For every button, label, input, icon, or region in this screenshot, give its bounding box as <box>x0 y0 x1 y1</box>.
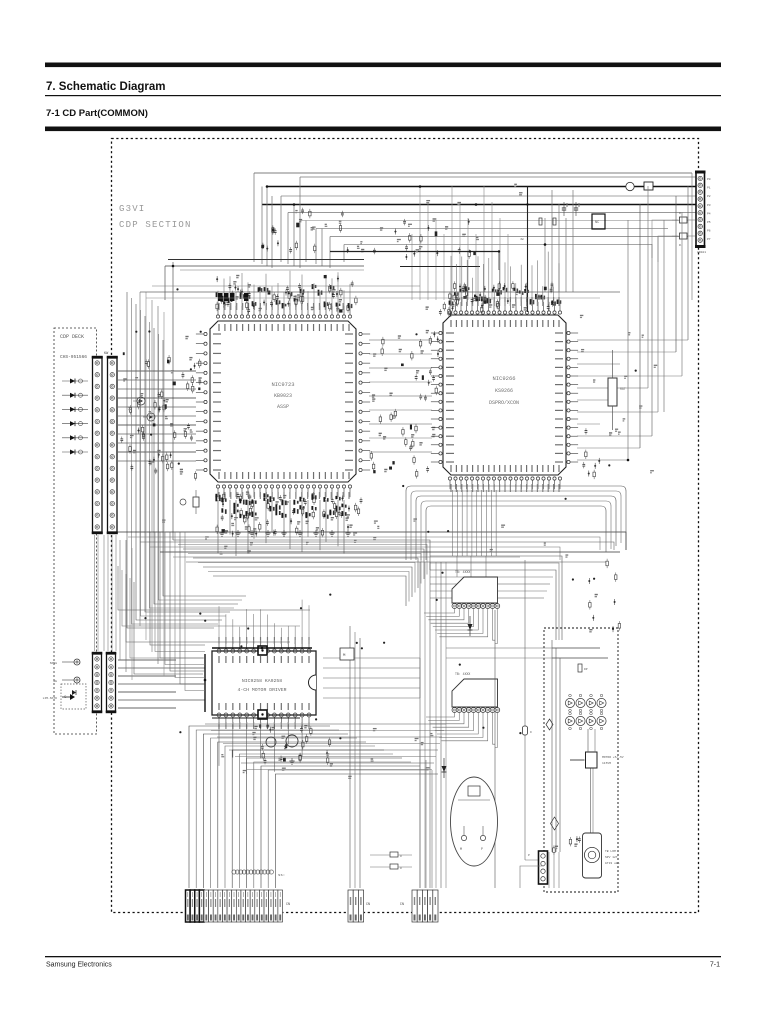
wire verticals right margin <box>628 173 692 460</box>
wire bus verticals mid-bottom <box>350 626 432 888</box>
wire horizontal band below U3 <box>205 724 446 770</box>
value labels on U1 bottom wires <box>215 493 346 519</box>
svg-text:TB LOM: TB LOM <box>605 850 616 853</box>
U1 left pins <box>196 332 207 471</box>
wire bus above U3 nested <box>118 532 310 691</box>
wire U2 bottom pin drops <box>453 490 497 577</box>
component on thick top line <box>644 182 653 190</box>
value labels on U2 top wires <box>449 287 562 306</box>
wire top bus mid vertical drops to U2 <box>412 186 573 300</box>
transistor Q1 left of U1 <box>133 397 145 405</box>
diode barrel on x525 wire <box>523 726 533 735</box>
connector CN4 strip B lower <box>106 652 117 713</box>
resistor R vertical right of U3 <box>608 350 626 430</box>
svg-text:P: P <box>481 847 483 851</box>
svg-text:SPRG: SPRG <box>50 662 57 665</box>
wires top of transistor array <box>552 640 608 852</box>
diode row in CDP DECK box <box>62 379 88 455</box>
diode D diamond upper <box>546 719 553 730</box>
junction dot specks <box>135 288 637 739</box>
svg-text:DP: DP <box>584 668 588 671</box>
U2 left pins <box>431 331 442 463</box>
label noise mid band <box>162 518 568 557</box>
wire feeds into inner dashed box top <box>446 648 552 658</box>
svg-text:NIC9266: NIC9266 <box>492 375 515 382</box>
circle junction on top bus <box>626 182 634 190</box>
label noise left bus <box>123 371 192 464</box>
svg-text:P0: P0 <box>707 178 711 181</box>
capacitor cluster top middle <box>339 211 476 260</box>
svg-text:RGT: RGT <box>620 387 626 391</box>
IC small box on top bus <box>592 214 605 229</box>
U3 bottom pins <box>217 713 311 724</box>
wire transistor grid to motor IC <box>588 729 595 752</box>
resistor pair block above U1 <box>218 293 249 301</box>
svg-text:TB: 4XXX: TB: 4XXX <box>455 672 470 676</box>
outer dashed border of CDP section <box>112 139 699 913</box>
svg-text:TB: 4XXX: TB: 4XXX <box>455 570 470 574</box>
wire band across middle <box>116 532 626 562</box>
svg-text:CDP DECK: CDP DECK <box>60 334 84 340</box>
svg-text:SPV 12T: SPV 12T <box>605 856 618 859</box>
svg-text:MOTOR +5/-5V: MOTOR +5/-5V <box>602 755 624 759</box>
connector CN9 bottom middle <box>348 890 370 922</box>
U3 top pins <box>217 642 311 653</box>
header top rule <box>45 63 721 68</box>
wire bus U1 right to U2 left <box>369 340 432 452</box>
U1 top pins <box>216 306 351 318</box>
svg-text:KS9266: KS9266 <box>495 388 513 394</box>
wire U1 top pin risers <box>218 271 350 306</box>
wire U3 top pin risers <box>219 600 309 640</box>
svg-text:P6: P6 <box>707 230 711 233</box>
svg-text:NIC9723: NIC9723 <box>271 381 294 388</box>
connector CN3 deck strip B <box>107 356 118 534</box>
wire U1 bottom pin droppers <box>218 500 344 556</box>
wire bus left connectors to U1 <box>118 371 196 461</box>
label noise right column <box>580 315 657 472</box>
svg-text:P2: P2 <box>707 195 711 198</box>
IC U2 NIC9266 KS9266 DSPRO/XCON <box>443 315 566 475</box>
component cluster below U1 pins <box>216 492 362 538</box>
wire fan below CN6 <box>426 713 497 748</box>
resistor cluster mid right <box>582 428 612 479</box>
wire right-edge feeders <box>652 220 672 262</box>
wire top bus left vertical drops <box>254 173 344 268</box>
capacitor cluster top-left of U2 <box>426 296 467 317</box>
U2 right pins <box>567 331 578 463</box>
diode D1 between CN5 CN6 <box>468 616 473 636</box>
svg-text:P3: P3 <box>707 204 711 207</box>
component cluster right of deck connectors <box>120 352 196 480</box>
svg-text:D: D <box>530 731 532 734</box>
svg-text:GT33 uGb: GT33 uGb <box>605 861 620 865</box>
electrolytic cap C below U3 <box>286 735 298 747</box>
svg-text:P1: P1 <box>707 187 711 190</box>
component cluster left of U2 <box>410 336 439 433</box>
footer rule <box>45 956 721 957</box>
resistor pair above CN9 <box>370 852 412 870</box>
dashed sub-box G in CDP DECK <box>61 684 86 709</box>
motor drive IC box <box>570 752 624 768</box>
svg-text:7. Schematic Diagram: 7. Schematic Diagram <box>46 81 166 93</box>
wire rectangle above U1 <box>165 260 364 541</box>
switch symbols lower left <box>43 659 80 700</box>
wire big nested bus below U1 <box>127 292 430 628</box>
svg-text:ss:: ss: <box>278 874 285 878</box>
svg-text:NC: NC <box>595 221 599 225</box>
resistor R near top bus right <box>539 218 542 225</box>
connector CN5 horizontal <box>452 570 500 609</box>
diode D2 below CN6 <box>442 758 447 778</box>
cap cluster right of U3 <box>588 559 620 632</box>
diode D diamond lower <box>551 817 559 830</box>
header bottom rule <box>45 127 721 132</box>
wire bus right of U2 going right <box>577 340 688 460</box>
component cluster above U1 pins <box>216 275 357 314</box>
wire bus below U3 to bottom connector <box>189 726 438 888</box>
svg-text:4-CH MOTOR DRIVER: 4-CH MOTOR DRIVER <box>238 687 287 693</box>
wire U3 bottom pin drops <box>219 724 302 774</box>
loading motor M2 <box>583 833 620 878</box>
resistor boxes feeding right connector <box>672 212 695 247</box>
svg-text:CN: CN <box>366 903 370 907</box>
svg-text:CHS-951566: CHS-951566 <box>60 354 87 360</box>
wire thick feed to U2 top <box>330 187 529 313</box>
svg-text:ASSP: ASSP <box>277 404 289 410</box>
svg-text:CDP SECTION: CDP SECTION <box>119 220 192 230</box>
svg-text:P7: P7 <box>707 238 711 241</box>
U1 right pins <box>359 332 370 471</box>
wire U2 top pin risers <box>451 252 559 302</box>
U3 black pin squares <box>258 646 267 655</box>
svg-text:LIM-SKTD: LIM-SKTD <box>43 697 58 700</box>
svg-text:M: M <box>460 847 462 851</box>
header thin rule <box>45 95 721 96</box>
value labels on U1 top wires <box>216 284 353 308</box>
svg-text:P5: P5 <box>707 221 711 224</box>
electrolytic cap C2 below U3 <box>266 737 276 747</box>
U2 bottom pins <box>448 477 561 489</box>
svg-text:4W: 4W <box>520 238 524 241</box>
wire fan below CN5 <box>424 609 497 644</box>
connector CN7 small left of loading section <box>528 851 548 884</box>
svg-text:DSPRO/XCON: DSPRO/XCON <box>489 400 519 406</box>
svg-text:CN101: CN101 <box>697 251 706 254</box>
wire bottom right connectors feeders <box>520 852 559 888</box>
spindle motor M1 ellipse <box>451 777 498 866</box>
tiny circle row above bottom connector <box>232 870 285 878</box>
svg-text:115VM: 115VM <box>602 762 611 765</box>
connector CN8 bottom large <box>186 890 291 922</box>
component cluster right of U1 <box>370 331 435 479</box>
wire bus wrapping to right mid <box>430 556 562 640</box>
U2 top pins <box>448 302 561 314</box>
svg-text:G3VI: G3VI <box>119 204 145 214</box>
crystal X1 left of U1 <box>180 490 199 514</box>
component cluster above U2 <box>449 281 554 314</box>
label noise top bus <box>295 184 522 251</box>
U3 pin name labels <box>219 637 309 729</box>
connector CN3 deck strip A <box>92 356 103 534</box>
svg-text:KB9023: KB9023 <box>274 393 292 399</box>
wire frame top-left of U1 <box>140 286 620 298</box>
transistor Q2 left of U1 <box>143 413 155 421</box>
svg-text:NIC9258 KA9258: NIC9258 KA9258 <box>242 678 282 684</box>
connector CN10 bottom right <box>400 890 438 922</box>
wire bus lower-left connectors to right <box>118 660 205 708</box>
connector CN4 strip A lower <box>92 652 103 713</box>
resistor cluster above top bus center <box>261 208 316 254</box>
wire U3 right side to east <box>323 648 420 698</box>
svg-text:GE: GE <box>53 680 57 683</box>
connector CN6 horizontal <box>452 672 500 713</box>
svg-text:P: P <box>528 854 530 857</box>
svg-text:Samsung Electronics: Samsung Electronics <box>46 962 112 969</box>
svg-text:CN: CN <box>286 903 290 907</box>
connector CN right edge <box>695 171 711 255</box>
wire top bus horizontal lines <box>254 173 696 245</box>
svg-text:7-1: 7-1 <box>710 962 720 969</box>
wire from motor IC to loading motor <box>591 769 594 834</box>
wire nested frames below U2 <box>406 486 626 560</box>
component cluster below U3 <box>253 723 333 766</box>
wire long verticals right of CN5 CN6 <box>495 560 540 888</box>
IC U1 NIC9723 KB9023 ASSP <box>210 321 356 482</box>
U2 pin name labels <box>446 297 563 492</box>
svg-text:R: R <box>400 867 402 870</box>
transistor array Q1-Q8 <box>565 694 606 730</box>
CDP DECK dashed box <box>54 328 97 734</box>
IC U3 NIC9258 KA9258 4-CH motor driver <box>212 651 316 715</box>
label noise bottom band <box>221 729 433 779</box>
svg-text:R: R <box>400 855 402 858</box>
svg-text:CN: CN <box>400 903 404 907</box>
ground symbols below U1 <box>219 530 350 536</box>
inner dashed box loading motor section <box>544 628 618 892</box>
component cluster near CN7 <box>553 836 581 855</box>
svg-text:P4: P4 <box>707 212 711 215</box>
wire vertical bundle center-bottom <box>420 562 446 888</box>
U1 bottom pins <box>216 485 351 497</box>
thick rail around U3 <box>205 648 312 718</box>
ground below U3 <box>291 758 293 761</box>
component cluster left of U1 upper <box>182 337 202 394</box>
U1 pin name labels <box>213 303 353 499</box>
capacitor pair above U2 right <box>562 202 579 216</box>
svg-text:7-1 CD Part(COMMON): 7-1 CD Part(COMMON) <box>46 108 148 119</box>
wire between left connector pairs <box>95 535 117 651</box>
wire left tall verticals <box>120 292 164 680</box>
